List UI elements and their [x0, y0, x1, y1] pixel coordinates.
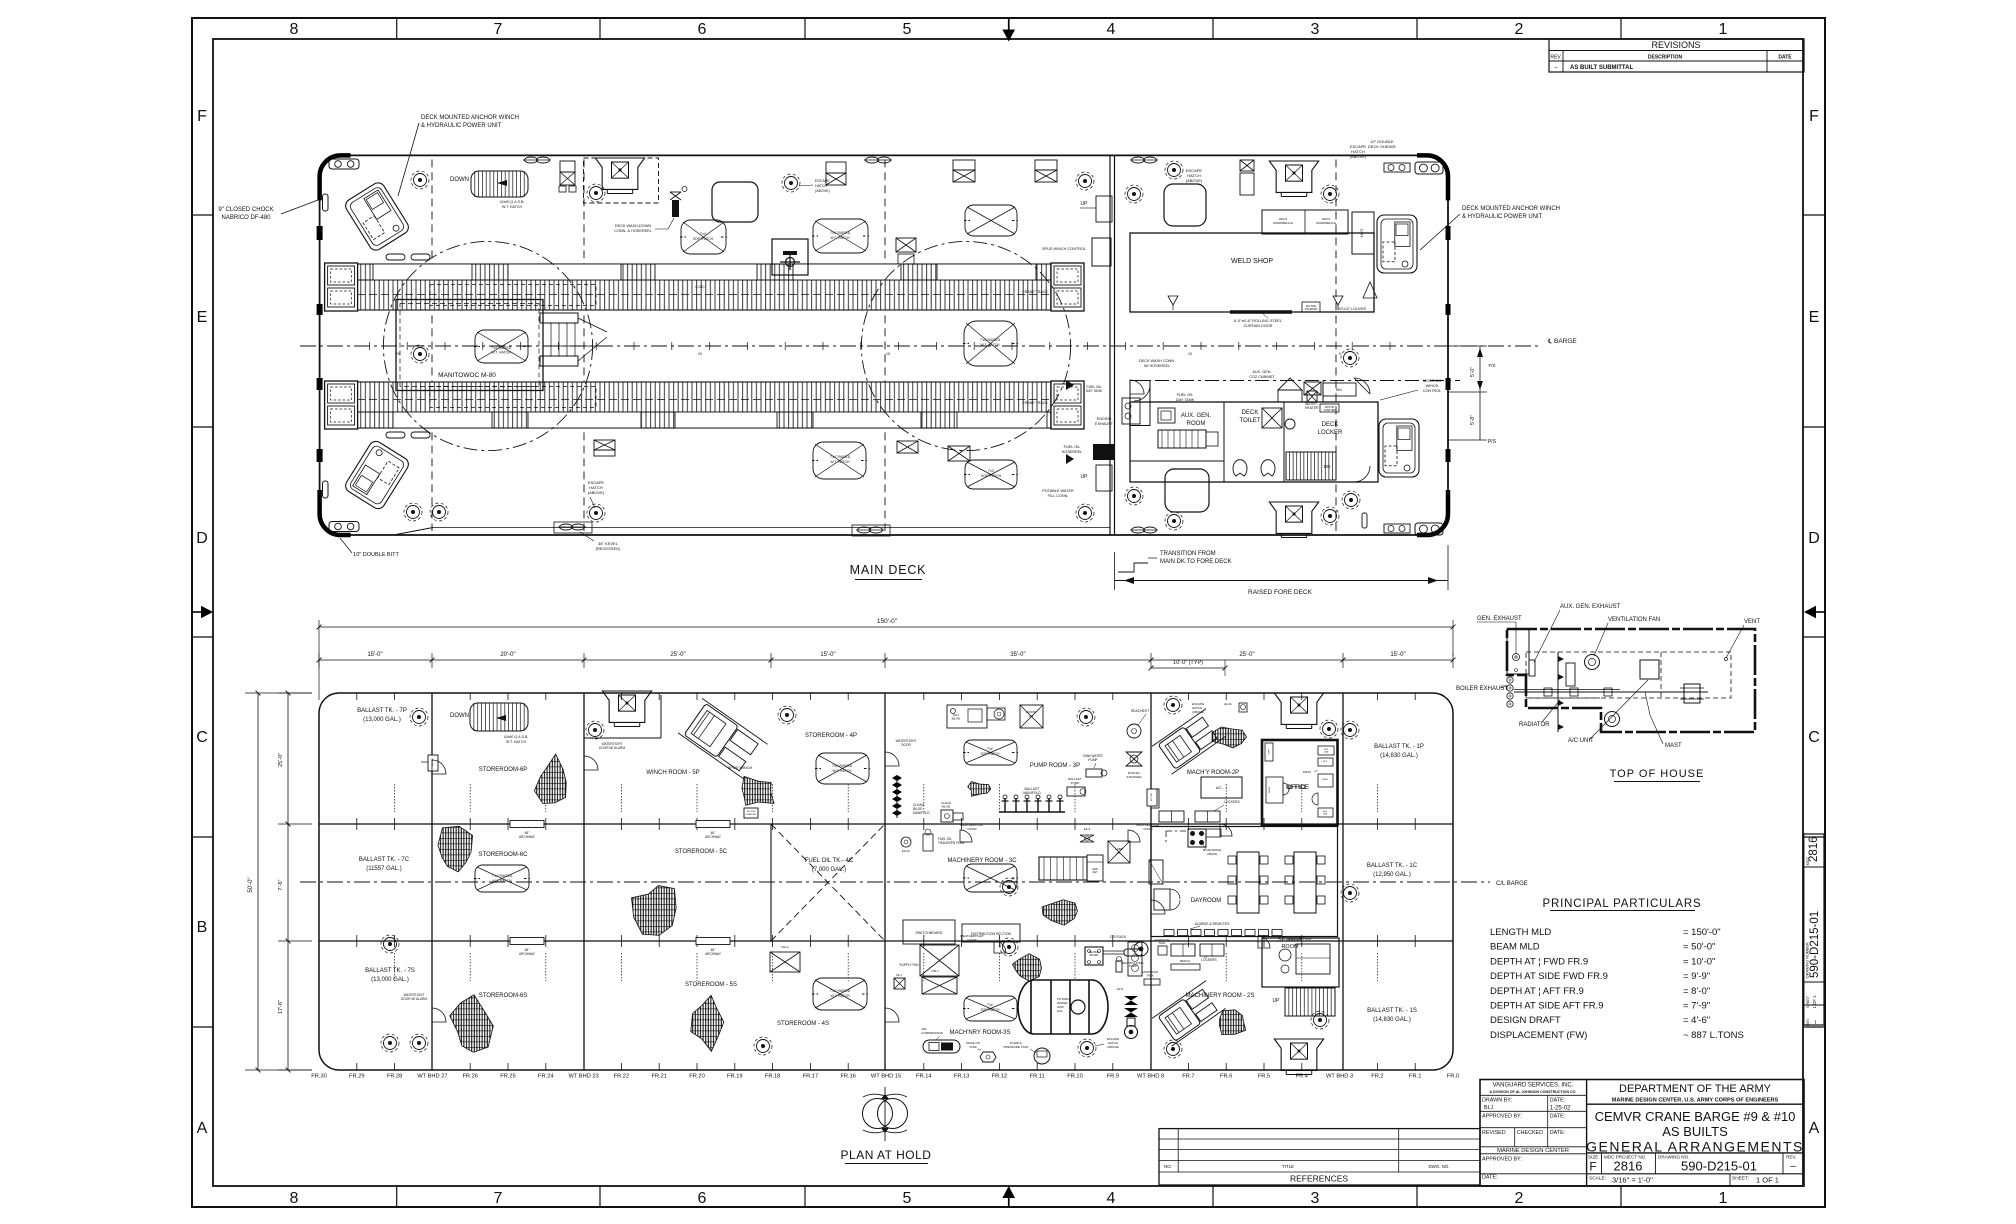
svg-text:1: 1 — [1719, 1190, 1728, 1207]
svg-text:DECK MOUNTED ANCHOR WINCH: DECK MOUNTED ANCHOR WINCH — [421, 115, 519, 121]
svg-text:–: – — [1790, 1161, 1796, 1172]
svg-text:2: 2 — [1515, 1190, 1524, 1207]
main deck frame dashed lines — [431, 159, 433, 531]
svg-text:20'-0": 20'-0" — [500, 652, 515, 658]
fuel oil tank dashed X — [771, 824, 885, 941]
machine machy room 2P — [1152, 709, 1226, 775]
svg-text:(ABOVE): (ABOVE) — [1107, 1045, 1119, 1049]
svg-text:DISPLACEMENT (FW): DISPLACEMENT (FW) — [1490, 1030, 1587, 1041]
lube oil box — [1108, 841, 1130, 863]
ballast manifold combs — [1004, 798, 1006, 812]
svg-text:7: 7 — [494, 1190, 503, 1207]
svg-text:= 10'-0": = 10'-0" — [1683, 956, 1715, 967]
svg-text:25'-0": 25'-0" — [670, 652, 685, 658]
svg-text:D: D — [196, 530, 208, 547]
hold horizontal bulkhead lower — [319, 940, 1453, 942]
svg-text:REVISED: REVISED — [1482, 1130, 1506, 1136]
svg-text:RADIATOR: RADIATOR — [1519, 722, 1550, 728]
svg-text:PUMP ROOM - 3P: PUMP ROOM - 3P — [1030, 763, 1080, 769]
svg-text:W.T. HATCH: W.T. HATCH — [981, 343, 1001, 347]
switchboard 3C — [903, 920, 955, 944]
svg-text:7'x4' RAISED: 7'x4' RAISED — [830, 989, 851, 993]
svg-text:UP: UP — [1081, 474, 1089, 480]
svg-text:DESK: DESK — [1322, 779, 1328, 781]
svg-text:F: F — [1809, 108, 1819, 125]
svg-text:WT BHD 8: WT BHD 8 — [1137, 1074, 1164, 1080]
svg-text:SUPPLY FAN: SUPPLY FAN — [899, 963, 919, 967]
motor starter weld shop — [1302, 302, 1320, 312]
svg-text:STOREROOM - 5C: STOREROOM - 5C — [675, 849, 728, 855]
rounded deck box main — [712, 182, 758, 222]
svg-text:DEPTH AT ¦ AFT FR.9: DEPTH AT ¦ AFT FR.9 — [1490, 986, 1584, 997]
svg-text:1 OF 1: 1 OF 1 — [1812, 995, 1817, 1008]
svg-text:FR.22: FR.22 — [614, 1074, 630, 1080]
svg-text:7'x4': 7'x4' — [987, 747, 994, 751]
svg-text:FR.7: FR.7 — [1182, 1074, 1194, 1080]
svg-text:6: 6 — [698, 21, 707, 38]
svg-text:EF-4A: EF-4A — [1224, 702, 1232, 706]
svg-text:HW-4: HW-4 — [931, 969, 939, 973]
svg-text:SCALE:: SCALE: — [1589, 1176, 1606, 1182]
svg-text:STOREROOM-6P: STOREROOM-6P — [479, 767, 528, 773]
svg-text:B: B — [197, 919, 208, 936]
deck locker stair — [1286, 452, 1336, 480]
machine machinery room 2S — [1152, 981, 1226, 1047]
svg-text:5: 5 — [1339, 352, 1341, 356]
svg-text:WT BHD 15: WT BHD 15 — [871, 1074, 901, 1080]
svg-text:STARTER: STARTER — [746, 813, 756, 816]
svg-text:F: F — [1589, 1160, 1596, 1174]
supply fan hw-4 boxes — [920, 945, 959, 976]
crane swing circle fwd — [861, 241, 1070, 450]
svg-text:FUEL OIL: FUEL OIL — [1064, 445, 1081, 449]
svg-text:FR.30: FR.30 — [311, 1074, 327, 1080]
svg-text:MH-2: MH-2 — [781, 945, 789, 949]
dayroom fridge — [1149, 860, 1163, 884]
svg-text:5'-0": 5'-0" — [1470, 367, 1476, 377]
row letter dividers left/right — [192, 214, 213, 216]
left dimension segments — [287, 693, 289, 1070]
svg-text:DN: DN — [1324, 464, 1331, 469]
ef-4a device — [1239, 703, 1247, 712]
svg-text:A DIVISION OF AL JOHNSON CONST: A DIVISION OF AL JOHNSON CONSTRUCTION CO… — [1490, 1090, 1577, 1094]
svg-text:7: 7 — [494, 21, 503, 38]
svg-text:REFERENCES: REFERENCES — [1290, 1174, 1348, 1184]
main deck interior dashed outline aft of trunk — [584, 158, 659, 203]
hold centerline — [300, 881, 1490, 883]
svg-text:50'-0": 50'-0" — [248, 877, 254, 892]
svg-text:W.T. HATCH: W.T. HATCH — [833, 769, 853, 773]
machinery 3C engine — [1039, 857, 1087, 880]
double bitt aft port — [329, 159, 359, 169]
track slots aft stbd — [386, 432, 405, 438]
ventilation fan top — [1585, 655, 1600, 670]
machy 2P A/C unit — [1201, 777, 1242, 798]
svg-text:CHECKED: CHECKED — [1517, 1130, 1543, 1136]
svg-text:DECK: DECK — [1242, 410, 1259, 416]
pump room oily bilge unit — [947, 705, 987, 728]
escape hatch mid deck — [785, 177, 798, 190]
svg-text:LOCKERS: LOCKERS — [1201, 958, 1216, 962]
svg-text:= 9'-9": = 9'-9" — [1683, 971, 1710, 982]
anchor winch unit fore deck top — [1377, 215, 1417, 273]
svg-text:CONN. & HOSEREEL: CONN. & HOSEREEL — [614, 229, 652, 233]
mast line — [1514, 691, 1708, 693]
svg-text:DATE:: DATE: — [1550, 1098, 1565, 1104]
winch room trunk enclosure — [584, 737, 661, 739]
svg-text:590-D215-01: 590-D215-01 — [1809, 911, 1821, 978]
motor starter pump room bhd — [1147, 789, 1157, 806]
svg-text:FR.9: FR.9 — [1107, 1074, 1119, 1080]
svg-text:TOP OF HOUSE: TOP OF HOUSE — [1610, 768, 1705, 780]
svg-text:BALLAST TK. - 7S: BALLAST TK. - 7S — [365, 968, 415, 974]
track slots aft port — [386, 254, 405, 260]
svg-text:DAY TANK: DAY TANK — [1176, 398, 1195, 402]
svg-text:15'-0": 15'-0" — [1390, 652, 1405, 658]
potable water tank — [1018, 980, 1108, 1034]
expansion tank 2S — [1158, 946, 1167, 955]
ac unit square — [1640, 660, 1659, 679]
mooring winch unit lower right — [1379, 419, 1419, 477]
svg-text:REV.: REV. — [1786, 1155, 1796, 1160]
svg-text:= 50'-0": = 50'-0" — [1683, 942, 1715, 953]
references table — [1159, 1129, 1480, 1185]
spud and washdown reel aft — [672, 200, 679, 217]
svg-text:EXHAUST: EXHAUST — [1095, 422, 1114, 426]
raised WT hatch softpatches main deck — [681, 220, 726, 254]
svg-text:HATCH: HATCH — [815, 184, 828, 188]
svg-text:0-DIC: 0-DIC — [695, 285, 705, 289]
main deck hull corner reinforcements — [320, 155, 351, 200]
svg-text:CONTROL: CONTROL — [1423, 389, 1442, 393]
kevels bottom edge — [560, 524, 573, 530]
sf-1 box — [894, 978, 905, 989]
kevels top edge — [525, 157, 538, 163]
svg-text:DECK WASH-DOWN: DECK WASH-DOWN — [615, 224, 651, 228]
svg-text:DOOR: DOOR — [968, 827, 978, 831]
anchor winch unit aft port — [343, 180, 411, 253]
hold frame tick marks on edges and bulkheads — [357, 693, 1415, 1070]
svg-text:SEWAGE PUMP: SEWAGE PUMP — [1288, 937, 1312, 941]
svg-text:ROOM: ROOM — [1187, 421, 1206, 427]
svg-text:AS BUILTS: AS BUILTS — [1662, 1124, 1728, 1139]
svg-text:590-D215-01: 590-D215-01 — [1681, 1159, 1757, 1174]
recirculating pump — [1116, 961, 1122, 972]
svg-text:2816: 2816 — [1614, 1159, 1643, 1174]
svg-text:(14,830 GAL.): (14,830 GAL.) — [1380, 753, 1418, 759]
mast step details — [1544, 688, 1552, 696]
transition bulkhead to fore deck — [1109, 155, 1111, 535]
svg-text:7'x4' RAISED: 7'x4' RAISED — [492, 874, 513, 878]
main deck inner deck edge line — [433, 527, 1110, 529]
dayroom outline — [1151, 827, 1338, 937]
svg-text:DOWN: DOWN — [450, 713, 469, 719]
svg-text:SET: SET — [1092, 870, 1097, 874]
x-box hatches main deck — [560, 161, 575, 172]
svg-text:(ABOVE): (ABOVE) — [588, 490, 605, 495]
svg-text:AUX. GEN.: AUX. GEN. — [1252, 370, 1271, 374]
fuel oil hosereel — [1093, 444, 1115, 460]
svg-text:FR.11: FR.11 — [1030, 1074, 1045, 1080]
xbox near bin — [1307, 391, 1317, 402]
svg-text:(ABOVE): (ABOVE) — [1192, 710, 1204, 714]
spud winch machine winch room — [678, 698, 768, 778]
svg-text:WORKBENCH: WORKBENCH — [1316, 221, 1336, 225]
svg-text:DOOR: DOOR — [1144, 827, 1154, 831]
svg-text:TOILET: TOILET — [1240, 418, 1261, 424]
svg-text:150'-0": 150'-0" — [877, 618, 898, 625]
crane raised WT hatch — [475, 330, 528, 363]
bitts fore deck corners — [1415, 162, 1443, 174]
svg-text:BIN: BIN — [1336, 388, 1342, 392]
chock port bar — [323, 194, 329, 211]
svg-text:BALLAST TK. - 1C: BALLAST TK. - 1C — [1367, 863, 1418, 869]
svg-text:5'-8": 5'-8" — [1470, 415, 1476, 425]
stair down w/ hatch — [471, 171, 528, 197]
dayroom galley stove — [1188, 829, 1206, 847]
svg-text:1 OF 1: 1 OF 1 — [1756, 1176, 1779, 1185]
svg-text:= 4'-6": = 4'-6" — [1683, 1015, 1710, 1026]
dayroom bottom lockers row — [1164, 930, 1174, 936]
svg-text:POTABLE WATER: POTABLE WATER — [1042, 489, 1074, 493]
svg-text:FR.14: FR.14 — [916, 1074, 932, 1080]
anchor winch unit fwd port? lower-left — [343, 439, 411, 512]
svg-text:6'-0"x6'-6" ROLLING STEEL: 6'-0"x6'-6" ROLLING STEEL — [1234, 319, 1282, 323]
top of house left equipment box — [1507, 629, 1529, 674]
svg-text:GAL.: GAL. — [1057, 1009, 1064, 1013]
svg-text:C: C — [196, 729, 208, 746]
title block vanguard column — [1480, 1094, 1587, 1096]
svg-text:REVISIONS: REVISIONS — [1651, 40, 1700, 50]
svg-text:2: 2 — [1515, 21, 1524, 38]
svg-text:25'-0": 25'-0" — [278, 753, 284, 767]
svg-text:LOCKER: LOCKER — [1318, 430, 1343, 436]
svg-text:STOREROOM - 5S: STOREROOM - 5S — [685, 982, 737, 988]
svg-text:SPUD WINCH: SPUD WINCH — [728, 766, 753, 770]
svg-text:AUX. GEN.: AUX. GEN. — [1181, 413, 1212, 419]
svg-text:MANIFOLD: MANIFOLD — [913, 811, 930, 815]
svg-text:DOOR: DOOR — [968, 938, 978, 942]
title block army column — [1587, 1103, 1804, 1105]
escape hatch 3S — [1081, 1042, 1094, 1055]
office computer table — [1265, 743, 1273, 761]
hold escape trunks — [602, 691, 651, 722]
motor starter house — [1320, 404, 1339, 412]
svg-text:7'x4': 7'x4' — [987, 1003, 994, 1007]
svg-text:WORKBENCH: WORKBENCH — [1273, 221, 1293, 225]
inner border frame — [213, 39, 1803, 1186]
svg-text:34072: 34072 — [1360, 228, 1364, 237]
svg-text:WELD SHOP: WELD SHOP — [1231, 258, 1273, 265]
svg-text:35'-0": 35'-0" — [1010, 652, 1025, 658]
svg-text:BALLAST TK. - 1P: BALLAST TK. - 1P — [1374, 744, 1424, 750]
svg-text:DRAWN BY:: DRAWN BY: — [1482, 1098, 1512, 1104]
svg-text:TANK: TANK — [1146, 974, 1153, 978]
aux gen room bottom wall — [1130, 460, 1224, 462]
svg-text:(12,950 GAL.): (12,950 GAL.) — [1373, 872, 1411, 878]
house vestibule — [1130, 381, 1150, 426]
pump room pump unit — [987, 708, 1005, 720]
hold lockers 2S — [1171, 944, 1195, 956]
svg-text:BENCH: BENCH — [1180, 959, 1190, 963]
dimension line 150ft overall — [318, 620, 320, 700]
svg-text:GENERAL ARRANGEMENTS: GENERAL ARRANGEMENTS — [1586, 1139, 1804, 1155]
svg-text:BILGE: BILGE — [952, 717, 961, 721]
svg-text:FR.6: FR.6 — [1220, 1074, 1232, 1080]
svg-text:10: 10 — [1188, 352, 1192, 356]
crane track lower band — [357, 382, 1051, 428]
crane track upper band — [357, 264, 1051, 310]
svg-text:EF-5A: EF-5A — [902, 849, 910, 853]
air compressor — [923, 1040, 960, 1053]
svg-text:DOOR: DOOR — [901, 743, 911, 747]
svg-text:8: 8 — [290, 21, 299, 38]
svg-text:10'-0" (TYP): 10'-0" (TYP) — [1173, 660, 1203, 666]
svg-text:COMPRESSOR: COMPRESSOR — [921, 1031, 944, 1035]
boiler exhaust cluster — [1507, 677, 1513, 683]
svg-text:BALLAST TK. - 7C: BALLAST TK. - 7C — [359, 857, 410, 863]
svg-text:(RECESSED): (RECESSED) — [596, 546, 621, 551]
hold stair down — [470, 703, 528, 731]
svg-text:WINCH: WINCH — [1426, 384, 1439, 388]
svg-text:OIL: OIL — [1029, 714, 1034, 718]
fuel oil day tank — [1158, 408, 1175, 423]
svg-text:STOREROOM - 4P: STOREROOM - 4P — [805, 733, 857, 739]
svg-text:FR.5: FR.5 — [1258, 1074, 1270, 1080]
svg-text:PUMP: PUMP — [1071, 781, 1080, 785]
svg-text:& HYDRAULIC POWER UNIT: & HYDRAULIC POWER UNIT — [421, 123, 502, 129]
svg-text:APPROVED BY:: APPROVED BY: — [1482, 1114, 1522, 1120]
svg-text:EF-8: EF-8 — [1117, 987, 1124, 991]
main deck starboard side thick marks — [1446, 226, 1451, 240]
svg-text:DECK WASH CONN.: DECK WASH CONN. — [1139, 359, 1175, 363]
spud well box — [772, 239, 808, 275]
svg-text:FUEL OIL: FUEL OIL — [1177, 393, 1194, 397]
dayroom cabinet — [1154, 889, 1170, 910]
svg-text:5: 5 — [903, 21, 912, 38]
dayroom tables — [1237, 852, 1259, 913]
svg-text:LOCKERS: LOCKERS — [1224, 800, 1239, 804]
aux gen generator set — [1158, 430, 1206, 448]
svg-text:BEAM MLD: BEAM MLD — [1490, 942, 1540, 953]
svg-text:MAST: MAST — [1665, 743, 1682, 749]
svg-text:DEPTH AT SIDE FWD FR.9: DEPTH AT SIDE FWD FR.9 — [1490, 971, 1608, 982]
svg-text:(13,000 GAL.): (13,000 GAL.) — [371, 977, 409, 983]
svg-text:7'x4': 7'x4' — [988, 469, 995, 473]
rounded deck box fore deck bottom — [1165, 469, 1209, 512]
svg-text:DESIGN DRAFT: DESIGN DRAFT — [1490, 1015, 1561, 1026]
svg-text:FR.10: FR.10 — [1067, 1074, 1083, 1080]
svg-text:MOORING: MOORING — [1423, 379, 1442, 383]
archways — [510, 821, 544, 828]
svg-text:ARCHWAY: ARCHWAY — [519, 952, 536, 956]
svg-text:AS BUILT SUBMITTAL: AS BUILT SUBMITTAL — [1570, 65, 1633, 71]
svg-text:(ABOVE): (ABOVE) — [815, 189, 830, 193]
svg-text:EF-6: EF-6 — [1084, 827, 1091, 831]
svg-text:–: – — [1812, 1020, 1819, 1024]
weld shop rolling door — [1230, 310, 1292, 314]
main deck centerline — [300, 345, 1540, 347]
svg-text:E: E — [197, 309, 208, 326]
svg-text:20: 20 — [698, 352, 702, 356]
svg-text:MACHINERY ROOM - 3C: MACHINERY ROOM - 3C — [947, 858, 1017, 864]
svg-text:7'x4' RAISED: 7'x4' RAISED — [491, 346, 512, 350]
main deck hull outline — [320, 155, 1448, 535]
svg-text:FR.19: FR.19 — [727, 1074, 743, 1080]
title block size/project/drawing row — [1601, 1153, 1603, 1174]
hold bench 2S — [1171, 964, 1200, 970]
svg-text:MOTOR: MOTOR — [1151, 793, 1153, 802]
svg-text:3: 3 — [1311, 1190, 1320, 1207]
deck toilet fixtures — [1262, 408, 1282, 428]
motor starter winch room — [744, 808, 758, 818]
outer border frame — [192, 18, 1825, 1207]
svg-text:GEN. EXHAUST: GEN. EXHAUST — [1477, 616, 1522, 622]
svg-text:MANIFOLD: MANIFOLD — [1023, 791, 1041, 795]
svg-text:DATE: DATE — [1778, 55, 1792, 61]
svg-text:FUEL OIL TK.- 4C: FUEL OIL TK.- 4C — [805, 858, 854, 864]
svg-text:C/L BARGE: C/L BARGE — [1496, 881, 1528, 887]
svg-text:(11557 GAL.): (11557 GAL.) — [366, 866, 402, 872]
svg-text:W.T. HATCH: W.T. HATCH — [493, 879, 513, 883]
svg-text:BILGE: BILGE — [942, 805, 951, 809]
svg-text:15: 15 — [886, 352, 890, 356]
svg-text:CEMVR CRANE BARGE #9 & #10: CEMVR CRANE BARGE #9 & #10 — [1595, 1109, 1796, 1124]
svg-text:STRAINER: STRAINER — [1126, 775, 1142, 779]
deck locker door swings — [1354, 378, 1370, 394]
svg-text:W/ HOSEREEL: W/ HOSEREEL — [1144, 364, 1170, 368]
ef-6 valve — [1080, 835, 1094, 842]
svg-text:TRANSITION FROM: TRANSITION FROM — [1160, 551, 1216, 557]
svg-text:VENT: VENT — [1744, 619, 1760, 625]
duplex strainer — [1126, 752, 1142, 766]
svg-text:7'x4' RAISED: 7'x4' RAISED — [830, 455, 851, 459]
svg-text:(ABOVE): (ABOVE) — [1350, 154, 1367, 159]
top of house outline — [1507, 629, 1755, 732]
svg-text:(13,000 GAL.): (13,000 GAL.) — [363, 717, 401, 723]
svg-text:ABOVE: ABOVE — [1207, 852, 1217, 856]
mk2 box — [770, 952, 800, 972]
svg-text:1-25-02: 1-25-02 — [1550, 1106, 1571, 1112]
svg-text:7'x4' RAISED: 7'x4' RAISED — [980, 338, 1001, 342]
svg-text:UP: UP — [1273, 998, 1281, 1004]
waste oil tank — [1020, 705, 1043, 728]
svg-text:DAY TANK: DAY TANK — [1086, 389, 1103, 393]
svg-text:5: 5 — [903, 1190, 912, 1207]
svg-text:FR.26: FR.26 — [462, 1074, 478, 1080]
svg-text:W.T. HATCH: W.T. HATCH — [831, 460, 851, 464]
svg-text:42x90 Q.A.S.B.: 42x90 Q.A.S.B. — [500, 200, 525, 204]
svg-text:PLAN AT HOLD: PLAN AT HOLD — [841, 1148, 932, 1162]
heating boiler — [1085, 947, 1103, 965]
svg-text:6: 6 — [698, 1190, 707, 1207]
svg-text:~ 887 L.TONS: ~ 887 L.TONS — [1683, 1030, 1744, 1041]
svg-text:(ABOVE): (ABOVE) — [1186, 178, 1203, 183]
office walls — [1262, 740, 1338, 825]
ventilation fan bottom — [1605, 712, 1620, 727]
svg-text:NABRICO DF-480: NABRICO DF-480 — [221, 215, 271, 221]
svg-text:4: 4 — [1107, 1190, 1116, 1207]
gen exhaust leader circle — [1477, 621, 1516, 623]
svg-text:17'-6": 17'-6" — [278, 1000, 284, 1014]
svg-text:3: 3 — [1311, 21, 1320, 38]
top of house inner dashed — [1526, 652, 1731, 698]
svg-text:MACH'NRY ROOM-3S: MACH'NRY ROOM-3S — [950, 1030, 1011, 1036]
main deck port side thick chock cutouts — [317, 226, 323, 240]
svg-text:FR.20: FR.20 — [689, 1074, 705, 1080]
hold frame web stubs — [395, 784, 1378, 981]
svg-text:A: A — [1809, 1120, 1820, 1137]
